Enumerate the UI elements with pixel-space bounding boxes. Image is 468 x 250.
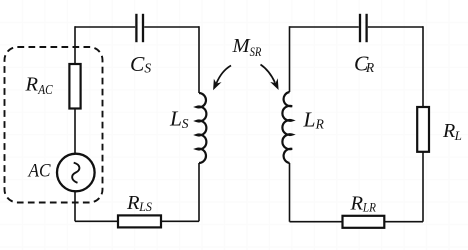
svg-text:AC: AC — [27, 161, 51, 182]
svg-text:R: R — [126, 192, 140, 214]
inductor LR — [282, 92, 292, 163]
resistor RAC — [69, 64, 80, 109]
svg-text:LS: LS — [138, 199, 152, 214]
label RL — [442, 120, 462, 143]
wire right-loop top — [290, 26, 424, 28]
svg-text:L: L — [454, 128, 462, 143]
svg-text:L: L — [303, 108, 316, 132]
label RLS — [126, 192, 152, 214]
label CS — [130, 52, 151, 76]
label LR — [303, 108, 325, 132]
svg-text:LR: LR — [362, 200, 376, 215]
svg-text:AC: AC — [37, 82, 53, 97]
wire left-loop right branch — [198, 26, 200, 221]
AC source — [57, 154, 95, 192]
label RAC — [25, 74, 54, 97]
svg-text:M: M — [232, 35, 252, 57]
label RLR — [350, 192, 376, 214]
resistor RL — [417, 107, 429, 152]
dashed source box — [5, 47, 103, 203]
wire right-loop right branch — [422, 26, 424, 222]
resistor RLS — [118, 215, 161, 227]
inductor LS — [196, 93, 206, 163]
svg-text:L: L — [169, 107, 182, 131]
coupling arrow right — [261, 65, 283, 92]
svg-text:SR: SR — [250, 44, 262, 59]
svg-text:R: R — [315, 116, 325, 131]
label CR — [354, 52, 375, 76]
svg-text:S: S — [182, 116, 189, 131]
wire left-loop bottom — [75, 220, 199, 222]
label LS — [169, 107, 189, 132]
svg-text:R: R — [365, 60, 375, 75]
wire left-loop top — [75, 26, 199, 28]
svg-text:C: C — [130, 52, 145, 76]
svg-text:S: S — [144, 61, 151, 76]
label MSR — [232, 35, 262, 59]
wire left branch (source branch) — [74, 26, 76, 221]
capacitor CS — [136, 14, 143, 42]
capacitor CR — [360, 14, 367, 42]
resistor RLR — [343, 216, 385, 228]
svg-text:R: R — [350, 192, 364, 214]
svg-text:R: R — [442, 120, 455, 142]
wire right-loop bottom — [290, 221, 424, 223]
wire right-loop left branch — [289, 26, 291, 222]
svg-text:R: R — [25, 74, 39, 96]
coupling arrow left — [209, 66, 231, 93]
